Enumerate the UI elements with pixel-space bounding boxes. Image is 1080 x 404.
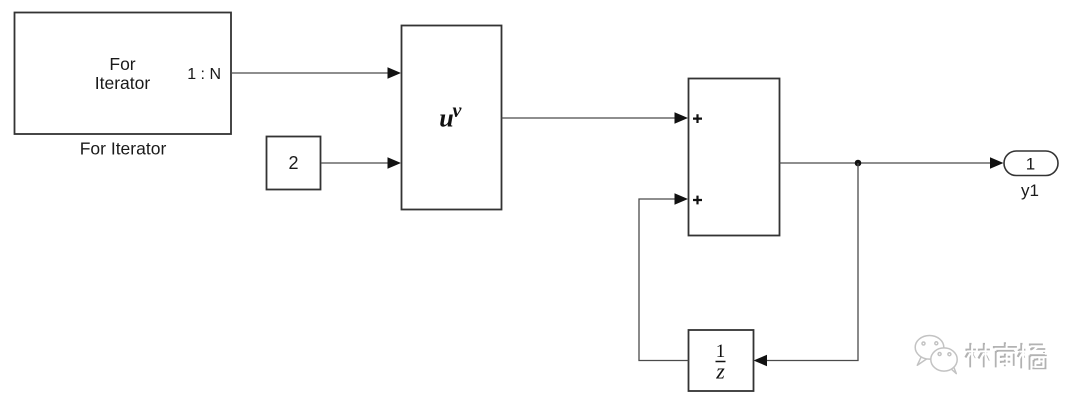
watermark text 林南橘 (drawn strokes) [965,342,1047,370]
feedback wire down from junction [766,163,858,361]
math power block u^v [402,26,502,210]
wire constant -> u^v [321,162,389,164]
junction dot [855,160,862,167]
svg-text:Iterator: Iterator [95,73,151,93]
svg-text:v: v [453,100,463,122]
svg-text:z: z [715,359,725,384]
plus sign 2 [693,196,702,205]
For Iterator block [15,13,232,135]
unit delay block 1/z [689,330,754,391]
svg-text:1: 1 [1026,155,1035,174]
svg-text:For: For [109,54,135,74]
outport y1 [1004,151,1058,176]
watermark wechat icon [915,336,957,374]
plus sign 1 [693,114,702,123]
feedback wire 1/z -> sum [639,199,689,361]
wire sum -> outport [780,162,992,164]
wire u^v -> sum [502,117,677,119]
svg-text:2: 2 [288,153,298,173]
sum block [689,79,780,236]
svg-text:1 : N: 1 : N [187,66,221,83]
svg-text:y1: y1 [1021,181,1039,200]
constant block 2 [267,137,321,190]
svg-text:For Iterator: For Iterator [80,139,167,159]
wire For Iterator -> u^v [231,72,389,74]
